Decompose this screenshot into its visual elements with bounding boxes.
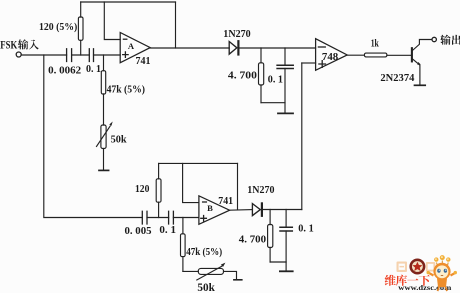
svg-text:0. 0062: 0. 0062 [48, 66, 81, 77]
op-amp A plus [123, 52, 128, 57]
svg-text:47k (5%): 47k (5%) [186, 247, 222, 258]
potentiometer RP2 50k B [198, 268, 223, 274]
diode D1 1N270 [229, 42, 237, 55]
wire 748 output [347, 54, 364, 56]
wire C6 stems [285, 210, 287, 271]
ground bar below 50k [99, 169, 109, 171]
svg-text:1N270: 1N270 [223, 29, 250, 40]
ground B section [280, 270, 293, 272]
wire feedback drop B [237, 163, 239, 209]
svg-text:0. 1: 0. 1 [268, 75, 283, 86]
svg-text:0. 1: 0. 1 [86, 64, 101, 75]
diode D2 1N270 B [252, 204, 260, 216]
termination bar B pot [234, 279, 242, 281]
wire input vertical to section B [44, 55, 143, 218]
resistor R6 47k B [182, 218, 184, 272]
svg-text:47k (5%): 47k (5%) [107, 85, 146, 96]
svg-text:120 (5%): 120 (5%) [39, 22, 78, 33]
watermark faint stamp text right [426, 262, 436, 272]
svg-text:1k: 1k [371, 39, 379, 50]
svg-text:0. 1: 0. 1 [298, 224, 313, 235]
svg-text:1N270: 1N270 [247, 185, 274, 196]
svg-text:120: 120 [135, 184, 149, 195]
op-amp A minus [123, 38, 126, 40]
svg-text:A: A [128, 41, 135, 51]
watermark red text [385, 275, 430, 286]
wire emitter termination [415, 84, 426, 86]
op-amp U2 748 [316, 39, 348, 71]
watermark mascot [427, 255, 457, 291]
capacitor C1 0.0062 [67, 49, 72, 62]
node output terminal [432, 37, 436, 41]
wire C3 stems [284, 48, 286, 113]
wire inverting input A [104, 2, 120, 40]
wire 1k to Q1 base [387, 54, 411, 56]
wire opamp B output [230, 209, 253, 212]
op-amp 748 plus [319, 61, 326, 68]
wire D2 to node [263, 209, 302, 211]
wire R7 bottom [270, 261, 286, 263]
svg-text:741: 741 [218, 196, 233, 207]
capacitor C2 0.1 [89, 49, 93, 62]
wire 748 plus input [302, 62, 316, 64]
label output [440, 35, 460, 45]
wire feedback drop A [175, 2, 177, 48]
wire 748 plus drop to section B [301, 63, 303, 210]
transistor Q1 2N2374 base bar [411, 48, 413, 61]
wire inverting input B [183, 163, 199, 202]
wire C5 to opamp B [173, 217, 199, 219]
wire feedback rail A [81, 1, 176, 3]
wire opamp A output [150, 47, 229, 49]
svg-text:B: B [207, 203, 213, 213]
resistor R2 47k [103, 55, 105, 125]
transistor Q1 emitter [412, 58, 420, 84]
wire below 50k [103, 149, 105, 170]
resistor R1 120 [80, 2, 82, 55]
svg-text:4. 700: 4. 700 [228, 71, 257, 82]
wire pot to termination [224, 271, 237, 279]
wire C2 to opamp A [94, 54, 121, 56]
capacitor C6 0.1 B [280, 227, 292, 231]
resistor R5 120 B [158, 163, 160, 217]
svg-text:741: 741 [136, 56, 151, 67]
op-amp B minus [203, 201, 207, 203]
wire D1 to 748 [240, 47, 316, 49]
op-amp U1 A 741 [120, 33, 150, 63]
resistor R4 1k [364, 53, 387, 57]
capacitor C5 0.1 B [169, 211, 174, 224]
watermark faint stamp text left [397, 262, 408, 273]
potentiometer RP1 50k [101, 125, 106, 149]
resistor R3 4.700 [260, 48, 262, 103]
op-amp U3 B 741 [199, 196, 230, 225]
svg-text:2N2374: 2N2374 [380, 73, 414, 84]
ground A section [278, 112, 293, 114]
svg-text:0. 005: 0. 005 [125, 226, 152, 237]
wire feedback rail B [159, 162, 238, 164]
wire C4 to C5 [147, 217, 169, 219]
wire C1 to C2 [72, 54, 90, 56]
svg-text:748: 748 [322, 52, 338, 63]
watermark stamp circle [411, 260, 424, 273]
wire input horizontal [21, 54, 66, 56]
capacitor C4 0.005 [142, 211, 147, 224]
op-amp B plus [201, 216, 207, 222]
resistor R7 4.700 B [269, 210, 271, 263]
svg-text:50k: 50k [111, 134, 128, 146]
svg-text:4. 700: 4. 700 [239, 235, 266, 246]
svg-text:FSK: FSK [0, 39, 17, 51]
svg-text:50k: 50k [197, 282, 215, 293]
node FSK input terminal [16, 52, 21, 57]
wire R3 bottom to ground stem [261, 102, 285, 104]
capacitor C3 0.1 [277, 65, 293, 68]
op-amp 748 minus [318, 46, 325, 48]
svg-text:0. 1: 0. 1 [159, 225, 176, 236]
transistor Q1 collector [412, 40, 432, 52]
wire 47k B to pot [183, 270, 198, 272]
